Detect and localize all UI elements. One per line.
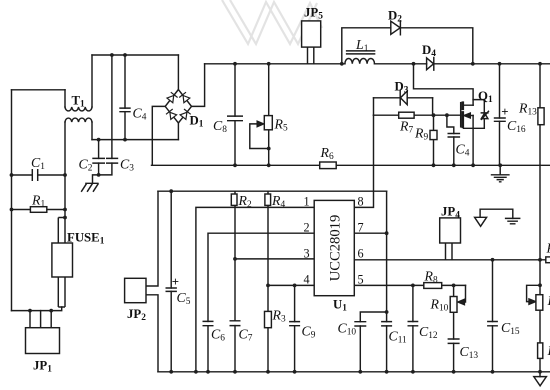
wire C8 leads	[234, 64, 236, 166]
ground earth small	[506, 218, 520, 223]
node C1 left	[10, 173, 14, 177]
svg-text:UCC28019: UCC28019	[328, 215, 344, 282]
inductor L1 coil	[345, 58, 375, 63]
node R1 left	[10, 208, 14, 212]
node gnd-R5	[267, 163, 271, 167]
wire R1 leads	[12, 209, 66, 211]
resistor R7 box	[399, 112, 414, 118]
wire C16 leads	[499, 64, 501, 166]
wire pin8 rail	[354, 115, 373, 207]
wire JP4 prongs	[446, 243, 453, 260]
node pin5-R10	[452, 284, 456, 288]
node pin5-C12	[411, 284, 415, 288]
wire D3/R7 loop verticals	[374, 98, 433, 115]
node gnd-C4b	[452, 163, 456, 167]
wire JP5 prongs	[308, 47, 314, 64]
wire JP1 row	[12, 307, 62, 311]
wire C4 bottom	[124, 112, 126, 140]
node bus-C7	[233, 370, 237, 374]
node gate-R9	[432, 113, 436, 117]
node pin4-C9	[293, 284, 297, 288]
wire pin7 stub	[354, 232, 386, 234]
node line2-C4	[123, 138, 127, 142]
wire T1 bottom-left rail	[64, 122, 66, 218]
wire boost node to Q1 drain	[414, 64, 474, 105]
transformer T1 top winding	[65, 107, 92, 111]
transistor Q1 body stub	[470, 115, 474, 117]
node bus-C16	[498, 62, 502, 66]
diode D1 bottom-left	[166, 109, 177, 119]
transistor Q1 channel segments	[461, 103, 464, 127]
ground triangle bottom right	[534, 377, 547, 386]
resistor R9 box	[430, 130, 437, 139]
IC U1 UCC28019 box	[314, 200, 354, 295]
wire bridge top feed	[177, 55, 179, 90]
node fuse top	[63, 216, 67, 220]
diode D1 top-right	[179, 92, 190, 103]
capacitor C4b plates	[448, 134, 461, 138]
svg-text:R: R	[547, 343, 550, 358]
wire T1 bottom-right down	[91, 122, 93, 140]
node gnd-R9	[432, 163, 436, 167]
wire pin3	[235, 258, 314, 260]
wire C9 leads	[294, 285, 296, 371]
wire bridge bottom feed	[177, 123, 179, 140]
wire D3 leads	[374, 97, 433, 99]
node bus-C10	[358, 370, 362, 374]
node C1 right	[63, 173, 67, 177]
wire JP1 prongs	[30, 311, 51, 328]
resistor right-edge cut box	[546, 257, 550, 263]
node bus-C9	[293, 370, 297, 374]
diode Q1 body diode	[481, 100, 488, 129]
inductor L1 core bars	[347, 51, 375, 54]
node bus-D2	[471, 62, 475, 66]
node pin4-R4	[266, 284, 270, 288]
node pin6-rail	[538, 258, 542, 262]
wire pin7/C11 rail	[386, 191, 388, 372]
capacitor C2 plates	[92, 158, 105, 163]
arrow R5 wiper	[257, 121, 263, 126]
transformer T1 bottom winding	[65, 118, 92, 122]
arrow R10 wiper	[458, 299, 465, 304]
node bus-R13	[538, 62, 542, 66]
diode D2	[391, 21, 401, 35]
node bus-C15	[491, 370, 495, 374]
node bus-pin1	[194, 370, 198, 374]
resistor pot right-edge box	[536, 295, 543, 311]
capacitor C3 plates	[106, 158, 118, 163]
resistor R6 box	[320, 162, 337, 169]
node JP1 p1	[28, 309, 32, 313]
svg-text:R: R	[546, 241, 550, 256]
wire pin2 + C6 rail	[208, 233, 314, 372]
capacitor C6 plates	[203, 321, 214, 325]
bridge D1 diamond	[165, 90, 191, 124]
svg-text:6: 6	[358, 247, 364, 261]
resistor R3 box	[265, 311, 272, 327]
connector JP4 box	[440, 218, 461, 243]
node line1-C4	[123, 53, 127, 57]
node gnd-C8	[233, 163, 237, 167]
ground open triangle	[475, 217, 487, 226]
resistor R10 box	[450, 297, 457, 313]
svg-text:2: 2	[304, 221, 310, 235]
capacitor C8 plates	[227, 116, 243, 121]
ground chassis near C2	[81, 183, 98, 192]
wire pin6 long	[354, 259, 546, 261]
wire DC bus y=63.8	[205, 63, 550, 65]
resistor R4 box	[265, 194, 271, 205]
node R5 wiper	[267, 147, 271, 151]
transistor Q1 gate bar	[460, 103, 462, 127]
svg-text:4: 4	[304, 273, 310, 287]
capacitor C5 plates	[166, 288, 177, 291]
wire C2 top tap	[98, 140, 100, 159]
wire AC top-left horizontal	[12, 89, 66, 91]
svg-text:+: +	[172, 275, 179, 289]
wire R10 leads	[453, 285, 455, 371]
arrow Q1 body	[464, 113, 470, 118]
node bus-C12	[411, 370, 415, 374]
node gnd-C16	[498, 163, 502, 167]
fuse FUSE1 body	[58, 218, 65, 308]
wire C4b leads	[447, 115, 454, 165]
node C2C3 gnd	[97, 173, 101, 177]
capacitor C15 plates	[487, 322, 498, 326]
capacitor C9 plates	[289, 322, 300, 326]
wire T1 top-right up	[91, 55, 93, 107]
wire R5 leads	[268, 64, 270, 166]
wire C3 bottom	[93, 163, 112, 183]
capacitor C7 plates	[230, 321, 241, 326]
transistor Q1 source stub	[464, 127, 485, 129]
resistor R2 box	[231, 194, 237, 205]
wire bottom bus	[158, 371, 550, 373]
diode D1 bottom-right	[180, 109, 191, 119]
wire right-edge pot loop	[527, 285, 540, 301]
arrow right-edge pot wiper	[529, 299, 536, 304]
resistor R5 box	[264, 116, 272, 130]
node bus-R3	[266, 370, 270, 374]
node R1 right	[63, 208, 67, 212]
svg-text:R: R	[547, 293, 550, 308]
wire R13 rail	[539, 64, 541, 377]
node bus-L1	[340, 62, 344, 66]
transistor Q1 drain stub	[464, 100, 485, 106]
wire pin5 long	[354, 284, 465, 286]
wire C1 leads	[12, 174, 66, 176]
node gate-C4b	[445, 113, 449, 117]
node line1-C3	[110, 53, 114, 57]
wire line1 bus y=55	[92, 54, 178, 56]
wire R5 wiper loop	[250, 124, 269, 149]
connector JP2 box	[125, 278, 146, 302]
node rail-pot	[538, 283, 542, 287]
node bus-C13	[452, 370, 456, 374]
node bus-R5	[267, 62, 271, 66]
wire line2 bus y=139.6	[92, 139, 178, 141]
node bus-C5	[169, 370, 173, 374]
capacitor C10 plates	[354, 322, 366, 326]
wire R7 leads	[374, 114, 433, 116]
diode D4	[427, 58, 434, 71]
wire pin1 + rail	[196, 207, 314, 371]
svg-text:1: 1	[304, 195, 310, 209]
wire ground pair link	[480, 209, 513, 218]
node pin6-C15	[491, 258, 495, 262]
wire C12 leads	[412, 285, 414, 371]
wire T1 top-left lead	[64, 90, 66, 107]
wire C5 leads	[170, 191, 172, 372]
capacitor C16 plates	[494, 118, 506, 121]
capacitor C1 plates	[32, 169, 37, 181]
wire ground bus y=165.3	[152, 164, 550, 166]
wire C4 top	[124, 55, 126, 108]
wire D2 branch	[342, 28, 473, 64]
watermark zigzag	[222, 0, 322, 44]
wire C10 jog	[360, 312, 386, 372]
node bus-Q1	[412, 62, 416, 66]
svg-text:8: 8	[358, 195, 364, 209]
svg-text:7: 7	[358, 221, 364, 235]
node bus-C6	[206, 370, 210, 374]
wire JP2 rails	[146, 191, 158, 372]
node JP1 p3	[49, 309, 53, 313]
wire left rail	[11, 90, 13, 311]
capacitor C4 plates	[119, 108, 130, 112]
wire gate	[433, 114, 461, 116]
wire bridge right out	[192, 64, 205, 107]
node bus-C8	[233, 62, 237, 66]
wire Q1 source tie	[472, 116, 474, 166]
wire vcc y=191.2	[158, 190, 387, 192]
node line2-C2	[97, 138, 101, 142]
resistor R1 box	[30, 207, 46, 213]
capacitor C12 plates	[408, 322, 419, 326]
wire R4 rail	[267, 191, 269, 372]
diode D1 top-left	[167, 92, 178, 103]
resistor R8 box	[424, 283, 442, 289]
wire C2 bottom	[98, 163, 100, 175]
node pin3-R2	[233, 257, 237, 261]
capacitor C13 plates	[448, 339, 460, 343]
node bus-rail	[538, 370, 542, 374]
wire R10 wiper hook	[463, 285, 466, 302]
wire R2 rail	[234, 191, 236, 372]
wire C15 leads	[492, 260, 494, 372]
connector JP1 box	[26, 328, 60, 354]
ground earth near C16	[492, 165, 509, 182]
resistor lower right-edge box	[538, 343, 543, 359]
wire bridge left out	[152, 106, 165, 165]
wire pin4	[268, 284, 314, 286]
svg-text:+: +	[501, 105, 508, 119]
bridge diodes	[166, 92, 191, 119]
node bus-C11	[385, 370, 389, 374]
connector JP5 box	[302, 21, 321, 47]
capacitor C11 plates	[381, 322, 392, 326]
svg-text:FUSE1: FUSE1	[67, 231, 105, 247]
wire R9 leads	[433, 115, 435, 165]
node pin7	[385, 231, 389, 235]
svg-text:3: 3	[304, 247, 310, 261]
wire C3 drop from line1	[111, 55, 113, 158]
node gnd-Q1	[471, 163, 475, 167]
node vcc-C5	[169, 189, 173, 193]
svg-text:5: 5	[358, 273, 364, 287]
node C10 jog	[385, 310, 389, 314]
diode D3	[400, 91, 407, 105]
resistor R13 box	[538, 108, 544, 125]
